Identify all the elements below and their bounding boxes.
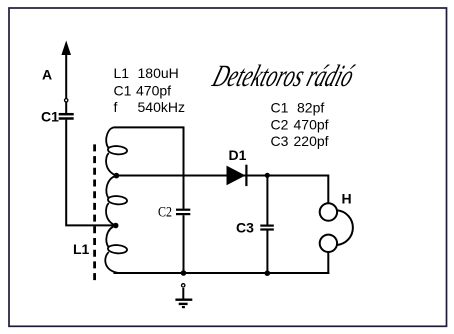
svg-text:Detektoros rádió: Detektoros rádió [208,59,359,93]
wire C2 bottom [183,215,185,273]
svg-text:A: A [42,66,52,82]
wire headphone branch bottom [327,252,329,274]
svg-text:C3: C3 [236,219,254,235]
node D1 output junction [265,173,270,178]
diode D1 [227,166,246,186]
wire detector rail [116,175,328,177]
svg-text:C1: C1 [271,100,289,116]
svg-text:540kHz: 540kHz [138,99,185,115]
wire C3 branch top [266,176,268,225]
svg-text:220pf: 220pf [294,133,329,149]
headphones H [320,203,353,252]
svg-text:D1: D1 [229,147,247,163]
svg-text:C1: C1 [41,108,59,124]
wire C1 to coil tap2 [66,120,116,226]
svg-text:C2: C2 [158,205,172,221]
node ground junction [181,270,187,276]
coil core (dashed) [93,144,96,281]
antenna arrow [61,41,71,114]
capacitor C3 [260,226,274,230]
capacitor C1 [59,114,74,118]
wire bottom rail [114,272,330,274]
node coil tap 2 [113,223,119,229]
wire headphone branch top [327,175,329,203]
node C3 bottom junction [265,270,271,276]
svg-text:C1: C1 [114,83,132,99]
node coil tap 1 [114,173,120,179]
svg-text:82pf: 82pf [297,100,324,116]
inductor L1 winding [105,127,127,273]
svg-text:L1: L1 [114,65,130,81]
svg-text:L1: L1 [73,241,90,257]
svg-text:470pf: 470pf [294,117,329,133]
ground [175,300,192,307]
svg-text:C2: C2 [271,117,289,133]
svg-text:H: H [342,191,352,207]
wire C3 bottom [266,231,268,274]
svg-text:470pf: 470pf [136,83,171,99]
wire coil top to C2 branch [114,127,184,208]
svg-text:f: f [114,99,118,115]
node ground terminal [182,284,185,287]
node antenna terminal [65,99,68,102]
capacitor C2 [176,210,190,214]
svg-text:C3: C3 [271,133,289,149]
wire to ground [182,288,184,299]
svg-text:180uH: 180uH [138,65,179,81]
